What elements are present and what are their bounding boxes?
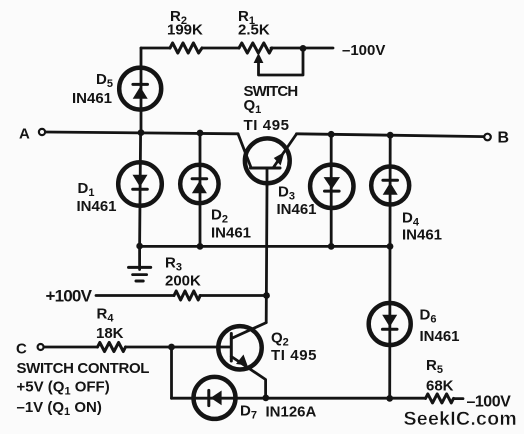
terminal B xyxy=(484,134,491,141)
diode D2 xyxy=(180,165,218,203)
diode D3 xyxy=(310,165,353,208)
node dot D6/rail xyxy=(386,395,393,402)
wire R4 row xyxy=(44,346,231,349)
resistor R2 xyxy=(170,43,202,53)
node dot rail/D2 xyxy=(197,243,204,250)
node dot A/D5 xyxy=(138,129,145,136)
diode D6 xyxy=(369,303,411,345)
svg-text:2.5K: 2.5K xyxy=(238,22,270,39)
wire D4/D6 column xyxy=(388,135,391,398)
svg-text:SWITCH CONTROL: SWITCH CONTROL xyxy=(17,360,150,377)
svg-text:IN461: IN461 xyxy=(402,227,442,244)
svg-text:–1V (Q1 ON): –1V (Q1 ON) xyxy=(17,399,102,418)
wire A line xyxy=(45,132,238,134)
wire R3 row xyxy=(96,294,267,297)
wire D3 column xyxy=(330,134,333,246)
svg-text:+5V (Q1 OFF): +5V (Q1 OFF) xyxy=(17,379,110,398)
node dot rail/D4 xyxy=(387,243,394,250)
svg-text:SeekIC.com: SeekIC.com xyxy=(404,408,518,430)
terminal A xyxy=(39,129,45,135)
svg-text:TI 495: TI 495 xyxy=(271,347,317,364)
wire D1 column xyxy=(140,133,141,247)
svg-text:68K: 68K xyxy=(426,378,454,395)
svg-text:+100V: +100V xyxy=(46,287,93,306)
resistor R4 xyxy=(98,343,126,352)
resistor R1 (potentiometer) xyxy=(239,43,272,53)
diode D5 xyxy=(119,68,161,110)
wire Q1 base to Q2 collector column xyxy=(265,186,269,323)
transistor Q1 xyxy=(245,138,290,183)
svg-text:18K: 18K xyxy=(96,325,124,342)
transistor Q2 xyxy=(218,326,261,369)
node dot rail/D3 xyxy=(328,243,335,250)
diode D7 xyxy=(194,377,236,419)
node dot rail/D1 xyxy=(136,243,143,250)
wire diode bottom rail xyxy=(140,245,390,248)
node dot R4/D7 branch xyxy=(168,344,175,351)
svg-text:IN461: IN461 xyxy=(277,201,317,218)
wire branch down to D7 xyxy=(170,347,173,398)
svg-text:C: C xyxy=(16,341,27,358)
wire D5 column xyxy=(140,48,143,133)
svg-text:IN461: IN461 xyxy=(77,198,117,215)
wire D2 column xyxy=(199,133,202,247)
node junction R1/-100V xyxy=(300,45,307,52)
svg-text:–100V: –100V xyxy=(342,42,385,59)
svg-text:IN461: IN461 xyxy=(72,90,112,107)
ground xyxy=(138,246,141,269)
svg-text:200K: 200K xyxy=(165,273,201,290)
svg-text:199K: 199K xyxy=(167,22,203,39)
svg-text:A: A xyxy=(19,126,30,143)
node dot B/D4 xyxy=(387,132,394,139)
diode D4 xyxy=(371,167,409,205)
wire top rail xyxy=(141,47,333,50)
svg-text:TI 495: TI 495 xyxy=(244,117,290,134)
wire bottom rail xyxy=(172,397,464,400)
resistor R5 xyxy=(426,394,454,403)
svg-text:B: B xyxy=(498,130,510,147)
resistor R3 xyxy=(174,291,200,300)
wire B line xyxy=(297,134,485,137)
svg-text:IN126A: IN126A xyxy=(266,404,317,421)
terminal C xyxy=(38,344,44,350)
node dot R3/base column xyxy=(263,292,270,299)
node dot Q2 emitter/rail xyxy=(262,395,269,402)
svg-text:IN461: IN461 xyxy=(211,225,251,242)
diode D1 xyxy=(118,162,162,206)
node dot B/D3 xyxy=(328,131,335,138)
node dot A/D2 xyxy=(197,130,204,137)
switch wiper arm of R1 xyxy=(259,50,304,75)
svg-text:IN461: IN461 xyxy=(420,328,460,345)
